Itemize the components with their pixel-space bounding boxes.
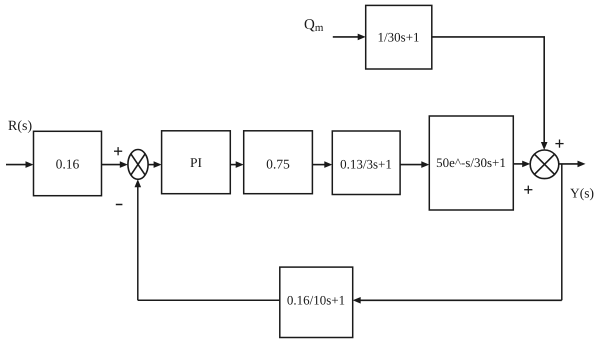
summing junction S2 — [530, 150, 559, 179]
wire S1 to block PI — [148, 161, 162, 168]
summing junction S1 — [128, 150, 148, 180]
wire output feedback tap down — [561, 164, 563, 300]
node Y(s) output label — [570, 188, 593, 200]
block 1/30s+1 — [366, 5, 432, 69]
wire Qm arrow into block 1/30s+1 — [333, 34, 366, 41]
wire block 0.16 to summing junction S1 — [102, 161, 128, 168]
wire input arrow into block 0.16 — [6, 161, 34, 168]
block PI — [162, 131, 231, 194]
wire block 50e^-s/30s+1 to summing junction S2 — [513, 161, 530, 168]
block 50e^-s/30s+1 — [429, 116, 513, 210]
block 0.75 — [244, 131, 313, 194]
wire S2 to output Y(s) — [559, 161, 586, 168]
node Qm disturbance label — [305, 19, 324, 31]
minus sign at S1 feedback input — [116, 204, 123, 206]
wire block PI to block 0.75 — [230, 161, 243, 168]
node R(s) input label — [8, 120, 31, 133]
block 0.13/3s+1 — [332, 131, 400, 195]
plus sign at S2 left input — [524, 186, 532, 194]
block 0.16 — [34, 131, 102, 195]
wire feedback right horizontal into block 0.16/10s+1 — [353, 297, 562, 304]
wire block 0.75 to block 0.13/3s+1 — [312, 161, 332, 168]
wire block 0.13/3s+1 to block 50e^-s/30s+1 — [400, 161, 429, 168]
plus sign at S1 input — [114, 147, 122, 155]
wire block 1/30s+1 to summing junction S2 (right then down) — [432, 37, 548, 150]
wire feedback up into S1 bottom — [135, 179, 142, 300]
plus sign at S2 top input — [555, 140, 563, 148]
wire feedback left horizontal from block 0.16/10s+1 — [138, 299, 280, 301]
block 0.16/10s+1 — [280, 267, 353, 337]
